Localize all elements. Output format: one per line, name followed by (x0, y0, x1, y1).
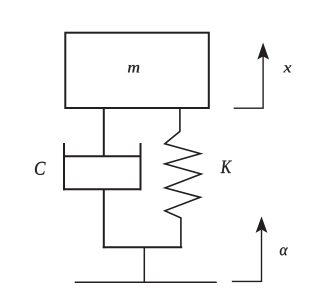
wire: bottom connector bar (103, 246, 183, 248)
wire: damper bottom rod (103, 189, 105, 248)
ground line (75, 281, 217, 283)
node x reference line (234, 56, 263, 108)
label alpha (280, 247, 288, 255)
arrow x head (258, 44, 268, 59)
spring K (165, 108, 201, 248)
wire: center stub to ground (143, 247, 145, 282)
arrow a head (257, 218, 267, 232)
damper C piston plate (63, 155, 142, 157)
label x (283, 65, 291, 72)
label m (128, 65, 139, 72)
mass m rectangle (65, 33, 209, 108)
node a reference line (232, 230, 262, 282)
damper C cylinder (63, 143, 142, 190)
label C (35, 162, 46, 175)
wire: damper top rod (103, 108, 105, 156)
label K (221, 161, 232, 173)
